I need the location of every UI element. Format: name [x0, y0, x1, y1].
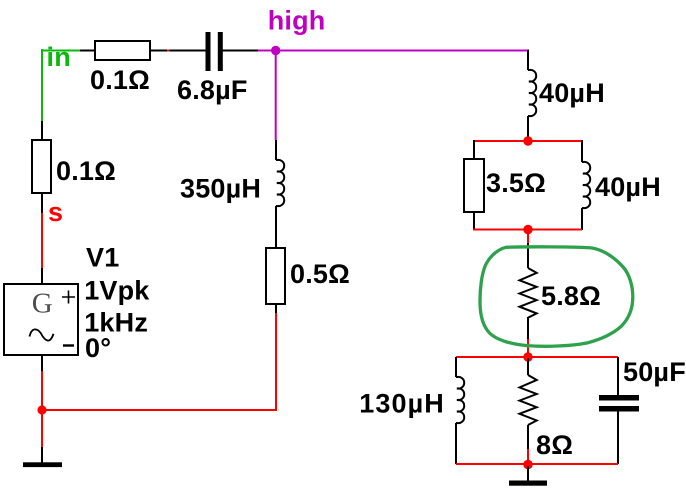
- resistor R5 5.8ohm zigzag: [520, 268, 537, 318]
- svg-text:40µH: 40µH: [595, 172, 661, 202]
- wire: red stub R6 to bottom rail: [527, 449, 529, 464]
- wire: V1 top pin: [41, 268, 43, 284]
- svg-text:s: s: [48, 197, 63, 227]
- node dot tank1 top: [523, 136, 532, 145]
- resistor R6 8ohm zigzag: [520, 375, 537, 425]
- wire: red stub to ground 1: [41, 410, 43, 448]
- wire: L2 bottom pin to R3: [275, 206, 277, 248]
- wire: R4 bottom pin: [473, 212, 475, 230]
- svg-text:in: in: [47, 42, 71, 72]
- wire: L3 bottom pin: [581, 208, 583, 230]
- inductor L3 40uH parallel: [582, 162, 590, 208]
- wire: red bottom rail horizontal: [42, 409, 276, 411]
- wire: R1 left pin: [80, 50, 95, 52]
- wire: ground 2 black stub: [527, 466, 529, 481]
- svg-text:0°: 0°: [85, 333, 111, 363]
- svg-text:130µH: 130µH: [359, 388, 445, 418]
- svg-text:0.1Ω: 0.1Ω: [56, 156, 116, 186]
- wire: purple net high horizontal to node: [258, 50, 276, 52]
- wire: L4 top pin: [455, 357, 457, 377]
- wire: R3 bottom pin: [275, 304, 277, 314]
- inductor L4 130uH: [456, 377, 464, 423]
- svg-text:3.5Ω: 3.5Ω: [486, 168, 546, 198]
- capacitor C2 50uF: [599, 395, 639, 412]
- wire: R1 right pin to C1: [150, 50, 206, 52]
- svg-text:high: high: [268, 6, 326, 36]
- wire: R6 top pin: [527, 358, 529, 375]
- ground 1 symbol: [23, 462, 62, 467]
- wire: purple net high horizontal: [276, 50, 528, 52]
- wire: L1 bottom pin: [527, 116, 529, 140]
- wire: R2 bottom pin: [41, 193, 43, 213]
- wire: red rail top of tank 2: [456, 356, 618, 358]
- wire: C1 right pin: [222, 50, 258, 52]
- wire: R5 top pin: [527, 243, 529, 268]
- resistor R3 0.5ohm vertical: [266, 248, 285, 304]
- svg-text:G: G: [32, 288, 53, 320]
- wire: red stub above tank2: [527, 339, 529, 356]
- wire: C2 bottom pin: [617, 411, 619, 464]
- source V1 box: [4, 284, 78, 355]
- wire: L2 top pin: [275, 140, 277, 160]
- svg-text:50µF: 50µF: [623, 357, 686, 387]
- resistor R2 0.1ohm vertical: [32, 140, 51, 193]
- source V1 plus sign: [62, 291, 75, 304]
- wire: green net in, vertical: [41, 49, 43, 121]
- node dot tank2 bottom: [523, 460, 533, 470]
- annotation green loop around R5: [480, 247, 633, 346]
- svg-text:0.1Ω: 0.1Ω: [90, 65, 150, 95]
- wire: V1 bottom pin: [41, 355, 43, 371]
- wire: red net s: [41, 213, 43, 268]
- resistor R4 3.5ohm vertical: [464, 159, 484, 212]
- wire: red rail bottom of tank 1: [473, 229, 582, 231]
- source V1 sine symbol: [30, 329, 54, 340]
- wire: purple net high vertical: [275, 51, 277, 141]
- wire: R2 top pin: [41, 121, 43, 140]
- capacitor C1 6.8uF: [206, 32, 223, 71]
- svg-text:350µH: 350µH: [180, 174, 261, 204]
- svg-text:6.8µF: 6.8µF: [177, 75, 248, 105]
- wire: C2 top pin: [617, 357, 619, 396]
- resistor R1 0.1ohm horizontal: [95, 41, 150, 60]
- inductor L1 40uH top: [528, 70, 536, 116]
- wire: ground 1 black stub: [41, 447, 43, 463]
- wire: L4 bottom pin: [455, 423, 457, 464]
- svg-text:1Vpk: 1Vpk: [84, 276, 150, 306]
- node tick red on wire: [167, 50, 170, 52]
- svg-text:5.8Ω: 5.8Ω: [541, 281, 601, 311]
- svg-text:V1: V1: [86, 243, 119, 273]
- ground 2 symbol: [509, 481, 547, 486]
- source V1 minus sign: [63, 344, 74, 346]
- wire: red rail top of tank 1: [473, 140, 582, 142]
- wire: red rail bottom of tank 2: [456, 463, 618, 465]
- inductor L2 350uH: [276, 160, 284, 206]
- svg-text:40µH: 40µH: [539, 78, 605, 108]
- wire: L3 top pin: [581, 140, 583, 162]
- node dot tank1 bottom: [523, 225, 532, 234]
- wire: R4 top pin: [473, 140, 475, 159]
- wire: red stub below tank1: [527, 229, 529, 244]
- wire: green net in, horizontal: [41, 50, 80, 52]
- wire: red net 0, V1 to junction: [41, 371, 43, 411]
- node high junction dot: [271, 46, 280, 55]
- node dot tank2 top: [523, 352, 532, 361]
- wire: R6 bottom pin: [527, 425, 529, 450]
- wire: red net, R3 to bottom rail: [275, 313, 277, 411]
- svg-text:8Ω: 8Ω: [536, 430, 573, 460]
- wire: L1 top pin from high net: [527, 50, 529, 71]
- node junction dot ground rail: [37, 405, 46, 414]
- wire: R5 bottom pin: [527, 317, 529, 340]
- svg-text:0.5Ω: 0.5Ω: [290, 259, 350, 289]
